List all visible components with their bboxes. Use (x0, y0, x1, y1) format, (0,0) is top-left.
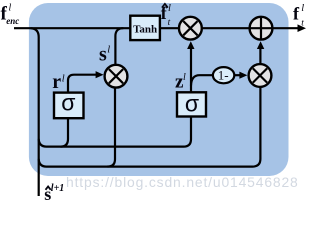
sigma box z (177, 92, 206, 116)
multiplier X1 (s = r * f) (105, 65, 128, 88)
wire: bus H1 from V0 to sigma-z input (39, 116, 191, 147)
label z^l (175, 71, 186, 92)
arrowhead into X1 (96, 71, 104, 78)
svg-text:https://blog.csdn.net/u0145468: https://blog.csdn.net/u014546828 (66, 174, 299, 190)
label s^l (99, 44, 110, 66)
svg-text:1-: 1- (218, 68, 229, 83)
svg-text:l: l (183, 72, 186, 83)
wire: branch from z line to 1- ellipse (191, 75, 213, 85)
wire: main horizontal line from f_enc to output arrow (14, 27, 298, 29)
label f_hat_t^l (Tanh output) (161, 3, 171, 28)
label f_t^l (output, top-right) (293, 3, 304, 28)
wire: from 1- ellipse to multiplier X3 (234, 74, 241, 76)
arrowhead into X2 (187, 41, 194, 49)
svg-text:f: f (293, 3, 300, 23)
wire: r arrow from sigma-r box to multiplier X1 (68, 75, 98, 93)
svg-text:l: l (9, 3, 12, 14)
wire: from multiplier X1 down to bus H3 (108, 87, 116, 167)
svg-text:enc: enc (6, 16, 19, 26)
wire: branch down from main line (node V0) (31, 28, 39, 196)
adder (+) (250, 17, 273, 40)
wire: bus H3 from V0 to multiplier below adder (39, 86, 261, 167)
wire: s signal from multiplier X1 up into main line (Tanh input) (115, 28, 123, 65)
svg-text:l+1: l+1 (51, 183, 64, 194)
label r^l (52, 71, 65, 93)
label f_enc^l (input, top-left) (1, 3, 20, 26)
svg-text:l: l (168, 3, 171, 14)
svg-text:t: t (301, 19, 304, 29)
svg-text:σ: σ (61, 90, 75, 116)
arrowhead into adder (257, 41, 264, 49)
Tanh box (130, 16, 160, 40)
svg-text:Tanh: Tanh (133, 23, 157, 35)
wire: z arrow from sigma-z up into multiplier X2 (190, 49, 192, 94)
wire: from multiplier X3 up into adder (259, 49, 261, 67)
svg-text:s: s (99, 44, 107, 66)
arrowhead into X3 (239, 72, 247, 79)
svg-text:σ: σ (185, 90, 199, 116)
arrowhead: output f_t (298, 24, 307, 32)
sigma box r (54, 93, 84, 119)
multiplier X2 (z * f_hat) (179, 17, 202, 40)
cell background rounded rectangle (29, 3, 289, 176)
multiplier X3 ((1-z) * s_hat) (249, 64, 272, 87)
svg-text:r: r (52, 71, 61, 93)
svg-text:l: l (107, 45, 110, 56)
svg-text:l: l (301, 3, 304, 14)
1- ellipse (213, 67, 234, 83)
svg-text:l: l (62, 74, 65, 85)
wire: sigma-r input from bus H1 (61, 118, 69, 147)
label s_hat^{l+1} (bottom input) (44, 183, 64, 204)
svg-text:t: t (168, 18, 171, 28)
